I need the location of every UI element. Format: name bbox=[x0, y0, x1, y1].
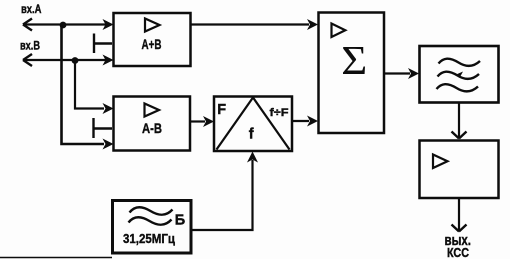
svg-text:Σ: Σ bbox=[341, 37, 367, 83]
junction dot A bbox=[60, 22, 67, 29]
arrow tick on middle wave of U5 bbox=[455, 72, 463, 78]
arrow into A+B bottom input bbox=[103, 55, 114, 66]
diagonal divider lines of U3 bbox=[217, 98, 290, 150]
wire B vertical down to A-B top input bbox=[75, 61, 104, 109]
svg-text:Б: Б bbox=[175, 212, 185, 228]
wire input B with left arrow bbox=[23, 54, 110, 66]
svg-text:f: f bbox=[249, 127, 254, 143]
wire input A with left arrow bbox=[23, 19, 110, 31]
wire output amplifier down arrow bbox=[458, 198, 460, 231]
svg-text:вх.А: вх.А bbox=[21, 4, 42, 16]
block U1 sum amplifier A+B bbox=[114, 13, 191, 66]
arrow into A+B top input bbox=[103, 19, 114, 30]
generator wave symbol of G1 bbox=[129, 207, 173, 225]
wire A+B output to summer bbox=[191, 23, 310, 25]
block U2 difference amplifier A-B bbox=[114, 97, 191, 151]
block U5 band filter bbox=[420, 46, 499, 103]
svg-text:31,25МГц: 31,25МГц bbox=[123, 231, 175, 246]
svg-text:F: F bbox=[217, 102, 226, 118]
svg-text:вх.В: вх.В bbox=[20, 41, 40, 53]
common terminal stub of A+B bbox=[94, 34, 112, 54]
amplifier symbol of U1 bbox=[145, 19, 160, 32]
svg-text:А-В: А-В bbox=[142, 120, 162, 136]
wire generator to modulator bbox=[191, 160, 253, 230]
wire modulator output to summer bbox=[292, 120, 309, 122]
block G1 reference generator bbox=[113, 201, 192, 254]
junction dot B bbox=[72, 57, 79, 64]
amplifier symbol of U6 bbox=[433, 155, 448, 169]
block U4 summer bbox=[319, 13, 385, 134]
svg-text:А+В: А+В bbox=[142, 36, 162, 52]
block U3 frequency converter F/f bbox=[214, 97, 292, 152]
amplifier symbol of U2 bbox=[145, 104, 160, 117]
filter wave symbol of U5 bbox=[437, 59, 481, 92]
svg-text:f÷F: f÷F bbox=[270, 107, 289, 119]
wire A vertical down to A-B bottom input bbox=[62, 25, 105, 144]
svg-text:КСС: КСС bbox=[447, 246, 469, 259]
common terminal stub of A-B bbox=[94, 118, 113, 138]
scan artifact bottom line bbox=[0, 257, 112, 259]
wire summer output to filter bbox=[384, 72, 410, 74]
amplifier symbol of U4 bbox=[332, 24, 346, 38]
block U6 output amplifier bbox=[420, 141, 499, 199]
wire filter output down to output amplifier bbox=[458, 103, 460, 139]
wire A-B output to modulator bbox=[190, 120, 205, 122]
